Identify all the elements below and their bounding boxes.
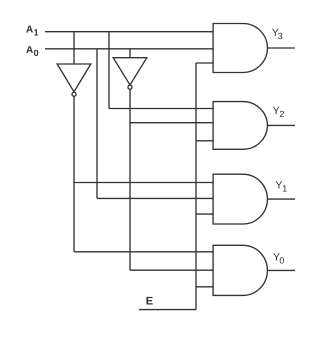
inverter U2 (A0 complement)	[113, 58, 147, 89]
wire Y1 input3 (E stub)	[196, 213, 214, 215]
node E label	[146, 295, 153, 307]
node Y3 label	[272, 27, 283, 41]
wire Y3 output	[267, 47, 295, 49]
node A0 label	[26, 45, 39, 58]
AND gate U3 (Y3)	[213, 24, 267, 73]
svg-text:A: A	[26, 45, 33, 56]
wire Y0 input2 (A0')	[130, 269, 214, 271]
wire A1 branch vertical (to Y2)	[108, 32, 110, 109]
wire Y0 output	[267, 269, 295, 271]
wire Y2 output	[267, 124, 295, 126]
wire Y2 input2 (A0')	[130, 122, 214, 124]
node A1 label	[26, 25, 39, 38]
wire A0 branch to inverter U2	[129, 49, 131, 58]
wire A1' vertical	[73, 96, 75, 252]
wire E horizontal	[139, 309, 196, 311]
wire A1 horizontal	[45, 31, 214, 33]
svg-text:3: 3	[278, 31, 283, 41]
AND gate U4 (Y2)	[213, 102, 267, 150]
wire Y0 input3 (E stub)	[196, 286, 214, 288]
wire A0 horizontal	[45, 48, 214, 50]
AND gate U6 (Y0)	[213, 245, 267, 295]
wire E vertical riser	[195, 63, 197, 310]
svg-text:1: 1	[282, 184, 287, 194]
wire Y3 input3 (E stub)	[196, 62, 214, 64]
wire A0' vertical	[129, 89, 131, 270]
wire Y2 input3 (E stub)	[196, 140, 214, 142]
wire Y0 input1 (A1')	[74, 251, 214, 253]
inverter U1 (A1 complement)	[57, 64, 91, 96]
node Y2 label	[273, 105, 285, 119]
wire Y1 input1 (A1')	[74, 182, 214, 184]
node Y0 label	[273, 251, 284, 265]
svg-text:0: 0	[34, 48, 39, 58]
svg-text:1: 1	[34, 28, 39, 38]
wire Y1 output	[267, 198, 295, 200]
svg-text:0: 0	[279, 255, 284, 265]
wire Y2 input1 (A1)	[109, 108, 214, 110]
wire A0 branch vertical (to Y1)	[96, 49, 98, 199]
node Y1 label	[275, 179, 287, 193]
wire A1 branch to inverter U1	[73, 32, 75, 64]
svg-text:2: 2	[279, 109, 284, 119]
svg-text:E: E	[146, 295, 153, 307]
svg-text:A: A	[26, 25, 33, 36]
AND gate U5 (Y1)	[213, 174, 267, 224]
wire Y1 input2 (A0)	[97, 197, 214, 199]
